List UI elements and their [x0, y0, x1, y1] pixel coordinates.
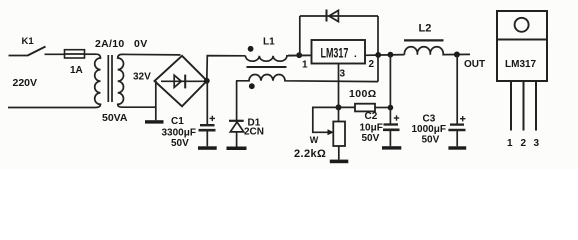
svg-text:100Ω: 100Ω — [349, 88, 377, 100]
label C1 — [171, 116, 184, 127]
junction: rail / C2 branch — [388, 52, 394, 58]
pin 1 wire — [288, 54, 312, 56]
label 10uF — [360, 123, 383, 134]
junction: bridge + output — [204, 78, 210, 84]
wire: secondary top 0V to bridge top vertex — [122, 53, 181, 56]
ground (C2) — [382, 146, 401, 149]
svg-text:LM317: LM317 — [321, 46, 349, 61]
label 50V of C2 — [362, 133, 380, 144]
svg-text:2.2kΩ: 2.2kΩ — [294, 148, 326, 160]
fuse 2A/10 body — [65, 50, 85, 58]
wire: C2 node down to plates — [389, 108, 391, 124]
label 2A/10 — [95, 38, 125, 50]
svg-text:50V: 50V — [422, 135, 440, 146]
potentiometer W body — [333, 122, 345, 147]
wire: pot bottom to ground — [338, 146, 340, 160]
label K1 — [22, 36, 35, 47]
label W — [310, 135, 319, 145]
label C2 — [365, 111, 378, 122]
svg-text:LM317: LM317 — [505, 59, 537, 70]
C2 plus sign — [394, 115, 399, 120]
TO-220 leg 1 — [510, 81, 512, 131]
wire: secondary bottom to ground riser — [122, 106, 156, 108]
label D1 — [248, 118, 261, 129]
C3 plus sign — [460, 116, 465, 121]
label 100ohm — [349, 88, 377, 100]
svg-text:2CN: 2CN — [244, 127, 264, 138]
TO-220 leg 2 — [523, 81, 525, 131]
package pin label 2 — [521, 138, 527, 149]
svg-text:1000μF: 1000μF — [412, 124, 446, 135]
resistor 100 ohm — [355, 104, 375, 112]
switch K1 blade — [28, 47, 46, 56]
wiper loop wire — [313, 107, 339, 132]
wire: fuse to transformer primary — [85, 53, 97, 55]
label LM317 — [321, 46, 358, 61]
TO-220 package tab — [497, 11, 547, 40]
svg-text:220V: 220V — [13, 77, 38, 89]
ground (C1) — [198, 146, 217, 150]
svg-text:C1: C1 — [171, 116, 184, 127]
label LM317 package — [505, 59, 537, 70]
label 50V of C3 — [422, 135, 440, 146]
transformer core — [108, 55, 112, 102]
wire: ADJ node to resistor — [339, 106, 356, 108]
ground (bridge left) — [145, 120, 164, 123]
protection diode left riser — [299, 16, 301, 55]
wire: resistor to C2 node — [375, 107, 390, 109]
L2 core underline — [404, 39, 444, 41]
junction: ADJ node — [336, 104, 342, 110]
junction: pin2 / protection diode — [375, 52, 381, 58]
label 2CN — [244, 127, 264, 138]
svg-text:1: 1 — [302, 60, 308, 71]
svg-text:OUT: OUT — [464, 59, 485, 70]
protection diode (cathode left) — [327, 10, 339, 22]
svg-text:C3: C3 — [423, 114, 436, 125]
transformer T1 secondary winding — [118, 54, 124, 107]
junction: pin1 / protection diode riser — [296, 52, 302, 58]
label 32V — [133, 72, 151, 83]
label 50V of C1 — [171, 138, 189, 149]
wire: bridge left vertex down to ground — [155, 81, 157, 120]
TO-220 mounting hole — [515, 18, 529, 32]
label L2 — [419, 23, 432, 35]
ground (D1) — [227, 147, 247, 151]
wire: C3 branch riser — [456, 55, 458, 124]
wire: 220V return from left edge to primary bottom — [8, 107, 95, 109]
TO-220 leg 3 — [535, 81, 537, 131]
package pin label 3 — [534, 138, 540, 149]
package pin label 1 — [507, 138, 513, 149]
label 0V — [134, 38, 148, 50]
wire: switch to fuse — [45, 53, 65, 55]
ground (pot) — [330, 160, 349, 164]
label C3 — [423, 114, 436, 125]
svg-text:50V: 50V — [171, 138, 189, 149]
wire: C1 branch from bridge output — [206, 81, 208, 124]
wire: C2 branch riser — [389, 55, 391, 108]
ground (C3) — [448, 146, 466, 149]
svg-text:2: 2 — [521, 138, 527, 149]
potentiometer wiper arrowhead — [328, 129, 334, 135]
diode D1 (cathode up) — [229, 121, 244, 147]
label 2.2kohm — [294, 148, 326, 160]
wire: bottom winding down to D1 — [236, 81, 238, 121]
svg-text:1A: 1A — [70, 65, 83, 76]
svg-text:2A/10: 2A/10 — [95, 38, 125, 50]
label 50VA — [102, 112, 128, 124]
capacitor C3 1000uF plates — [448, 125, 465, 147]
transformer T1 primary winding — [95, 54, 101, 107]
inductor L1 top winding — [245, 55, 311, 61]
C1 plus sign — [210, 116, 215, 121]
svg-text:C2: C2 — [365, 111, 378, 122]
L1 core line — [247, 66, 287, 68]
svg-text:0V: 0V — [134, 38, 148, 50]
svg-text:1: 1 — [507, 138, 513, 149]
svg-text:32V: 32V — [133, 72, 151, 83]
L1 polarity dot top — [248, 46, 254, 52]
capacitor C1 3300uF plates — [199, 125, 216, 146]
svg-text:2: 2 — [369, 59, 375, 70]
svg-text:3: 3 — [340, 69, 346, 80]
label 1000uF — [412, 124, 446, 135]
pin 2 wire — [365, 54, 405, 57]
svg-text:3: 3 — [534, 138, 540, 149]
inductor L1 bottom winding — [236, 75, 378, 82]
bridge internal diode — [161, 75, 205, 89]
svg-text:50VA: 50VA — [102, 112, 128, 124]
TO-220 body — [497, 40, 547, 82]
pin 2 label — [369, 59, 375, 70]
svg-text:K1: K1 — [22, 36, 35, 47]
protection diode top wire — [300, 15, 378, 17]
svg-text:L2: L2 — [419, 23, 432, 35]
capacitor C2 10uF plates — [383, 125, 400, 147]
svg-text:.: . — [354, 49, 357, 60]
svg-text:L1: L1 — [263, 37, 275, 48]
label 220V — [13, 77, 38, 89]
label 3300uF — [162, 128, 196, 139]
bridge rectifier diamond — [155, 56, 208, 107]
svg-text:W: W — [310, 135, 319, 145]
pin 3 wire — [338, 64, 340, 122]
pin 3 label — [340, 69, 346, 80]
wire: bottom winding riser to output rail — [377, 55, 379, 82]
svg-text:10μF: 10μF — [360, 123, 383, 134]
wire: bridge output up to main rail — [207, 56, 246, 81]
label OUT — [464, 59, 485, 70]
L1 polarity dot bottom — [249, 83, 255, 89]
junction: resistor / C2 — [388, 105, 394, 111]
inductor L2 — [404, 47, 470, 55]
protection diode right riser — [377, 16, 379, 55]
svg-text:50V: 50V — [362, 133, 380, 144]
label 1A — [70, 65, 83, 76]
wire: 220V live from left edge — [9, 55, 29, 57]
label L1 — [263, 37, 275, 48]
regulator LM317 box — [312, 40, 366, 64]
junction: OUT / C3 — [454, 52, 460, 58]
pin 1 label — [302, 60, 308, 71]
